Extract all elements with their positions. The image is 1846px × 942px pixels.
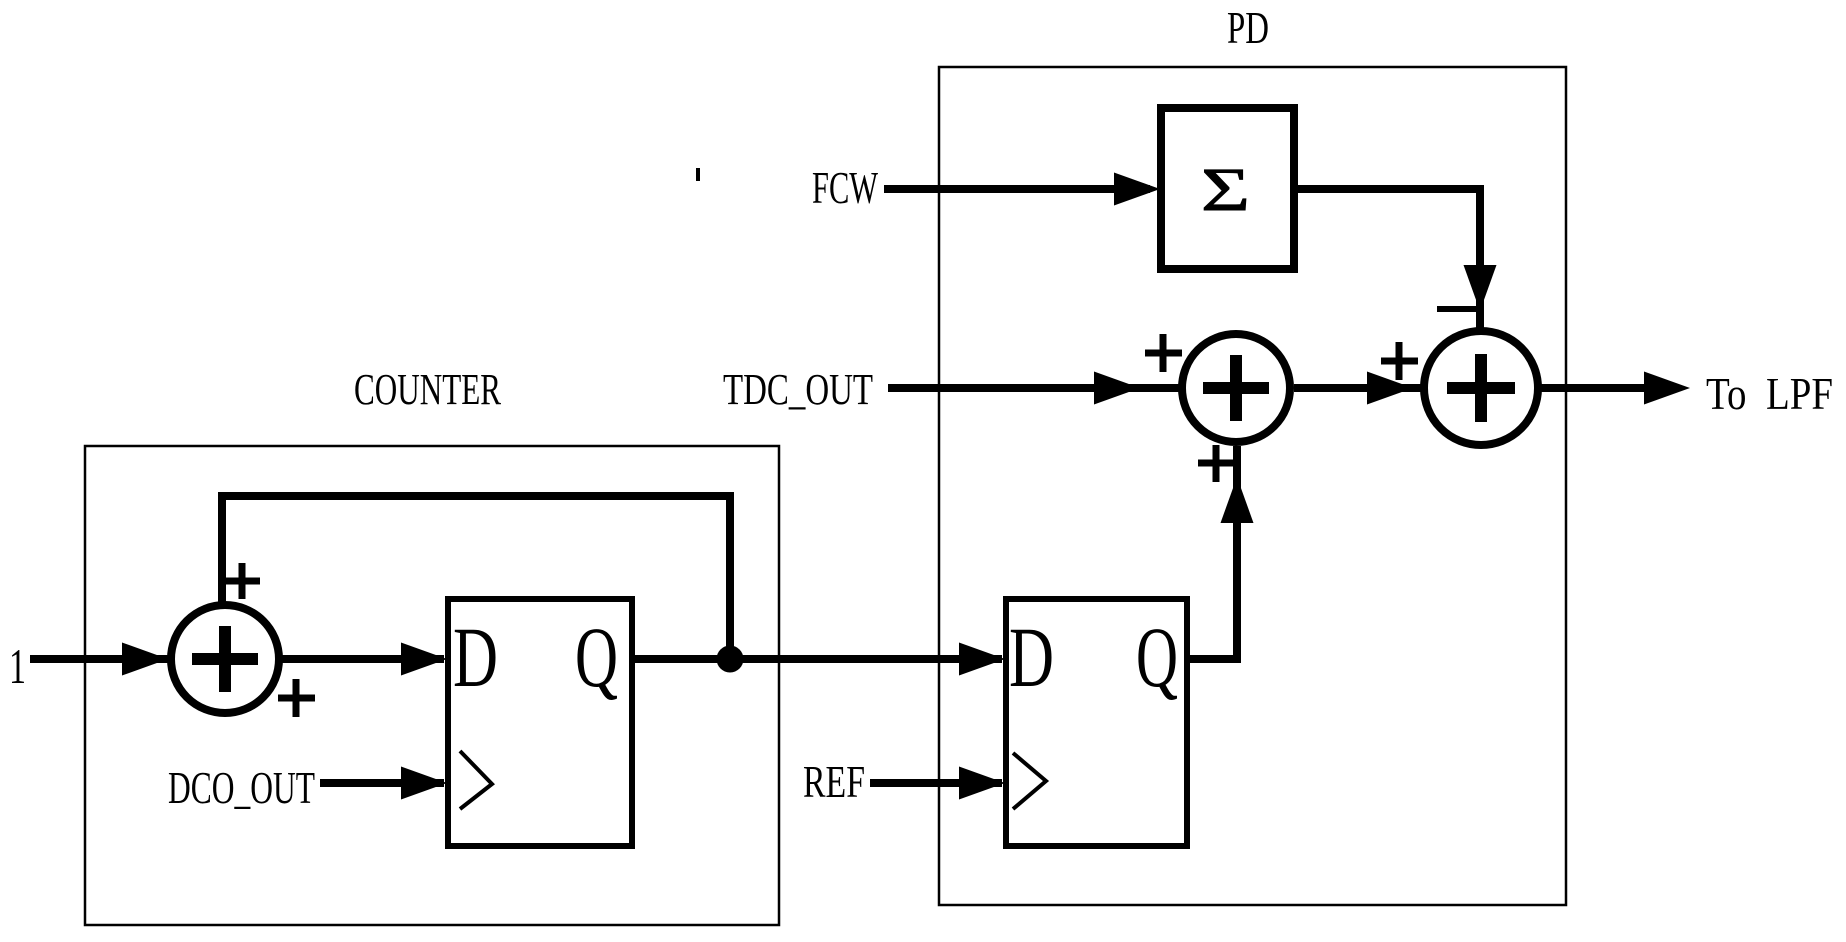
arrowhead into FF1 clock [401, 767, 447, 800]
svg-text:PD: PD [1227, 2, 1269, 53]
svg-text:REF: REF [803, 756, 865, 807]
minus sign at adder A3 top input [1437, 306, 1477, 312]
arrowhead into FF2 D input [959, 643, 1005, 676]
svg-text:1: 1 [9, 638, 26, 694]
arrowhead To LPF [1644, 372, 1690, 405]
feedback wire horizontal top [218, 492, 734, 500]
wire FCW to sigma [884, 185, 1150, 193]
wire FF2 Q output vertical up to adder A2 [1233, 446, 1241, 663]
arrowhead FCW into sigma [1114, 173, 1160, 206]
svg-text:Q: Q [575, 609, 618, 705]
wire DCO_OUT to FF1 clock [320, 779, 444, 787]
svg-text:To LPF: To LPF [1706, 368, 1833, 419]
plus sign at adder A2 bottom input [1198, 445, 1234, 482]
plus sign at adder A3 left input [1381, 342, 1418, 380]
arrowhead input 1 into adder A1 [122, 643, 168, 676]
COUNTER block boundary [85, 446, 779, 925]
arrowhead TDC_OUT into adder A2 [1094, 372, 1140, 405]
flip-flop FF2 body [1006, 599, 1187, 846]
wire adder A3 to LPF [1541, 384, 1660, 392]
plus sign at adder A1 top input [224, 563, 260, 599]
plus symbol inside adder A1 [192, 626, 258, 692]
plus sign at adder A1 left input [278, 679, 315, 717]
plus symbol inside adder A3 [1447, 354, 1515, 422]
arrowhead down into adder A3 [1464, 265, 1497, 311]
wire FF2 Q output horizontal [1187, 655, 1237, 663]
stray tick mark [696, 168, 700, 181]
arrowhead into adder A3 [1367, 372, 1413, 405]
feedback wire vertical down to adder A1 [218, 492, 226, 603]
arrowhead up into adder A2 [1221, 477, 1254, 523]
arrowhead into FF1 D input [401, 643, 447, 676]
feedback wire vertical from junction up [726, 492, 734, 659]
arrowhead into FF2 clock [959, 767, 1005, 800]
svg-text:COUNTER: COUNTER [354, 365, 501, 414]
plus symbol inside adder A2 [1203, 355, 1269, 421]
adder A1 [171, 605, 279, 713]
svg-text:FCW: FCW [812, 162, 878, 213]
svg-text:Q: Q [1136, 609, 1178, 705]
svg-text:Σ: Σ [1201, 157, 1250, 224]
flip-flop FF1 body [448, 599, 632, 846]
svg-text:TDC_OUT: TDC_OUT [723, 365, 873, 414]
wire TDC_OUT to adder A2 [888, 384, 1179, 392]
wire adder A2 to adder A3 [1294, 384, 1423, 392]
svg-text:D: D [453, 609, 498, 705]
wire REF to FF2 clock [870, 779, 1002, 787]
wire sigma output vertical down [1476, 185, 1484, 330]
wire input 1 to adder A1 [30, 655, 171, 663]
FF2 clock chevron [1013, 753, 1046, 809]
PD block boundary [939, 67, 1566, 905]
adder A2 [1182, 334, 1290, 442]
junction node dot [717, 646, 744, 673]
adder A3 [1424, 331, 1538, 445]
wire adder A1 to flip-flop FF1 D input [279, 655, 444, 663]
wire sigma output horizontal [1298, 185, 1480, 193]
accumulator box U1 (sigma) [1161, 108, 1294, 269]
svg-text:D: D [1009, 609, 1054, 705]
plus sign at adder A2 left input [1145, 334, 1182, 372]
wire FF1 Q output to FF2 D input [635, 655, 1002, 663]
FF1 clock chevron [460, 751, 492, 809]
svg-text:DCO_OUT: DCO_OUT [168, 762, 315, 813]
